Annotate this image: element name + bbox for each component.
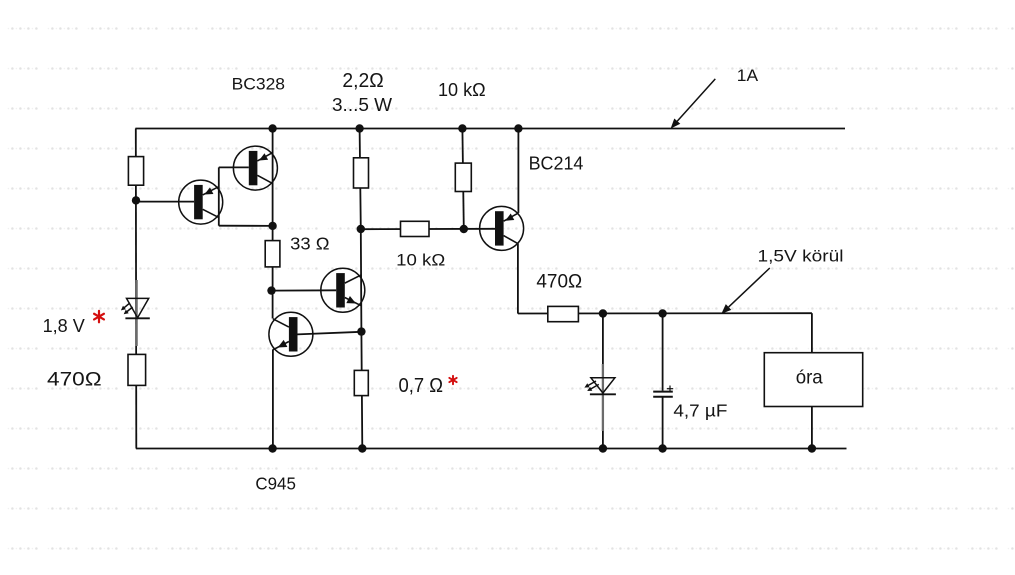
svg-text:33 Ω: 33 Ω: [290, 234, 329, 254]
svg-text:BC214: BC214: [529, 154, 584, 174]
svg-text:2,2Ω: 2,2Ω: [342, 70, 383, 92]
svg-text:1,8 V: 1,8 V: [43, 315, 86, 336]
svg-text:470Ω: 470Ω: [536, 272, 582, 293]
svg-text:470Ω: 470Ω: [47, 368, 102, 390]
svg-text:10 kΩ: 10 kΩ: [438, 80, 486, 100]
svg-text:10 kΩ: 10 kΩ: [396, 251, 445, 270]
svg-text:1,5V körül: 1,5V körül: [758, 247, 844, 266]
svg-text:óra: óra: [796, 367, 823, 389]
svg-text:C945: C945: [255, 474, 296, 494]
svg-text:3...5 W: 3...5 W: [332, 94, 392, 115]
svg-text:0,7 Ω: 0,7 Ω: [399, 375, 444, 397]
svg-text:BC328: BC328: [232, 75, 285, 94]
svg-text:4,7 µF: 4,7 µF: [673, 400, 727, 420]
svg-text:1A: 1A: [737, 66, 759, 85]
